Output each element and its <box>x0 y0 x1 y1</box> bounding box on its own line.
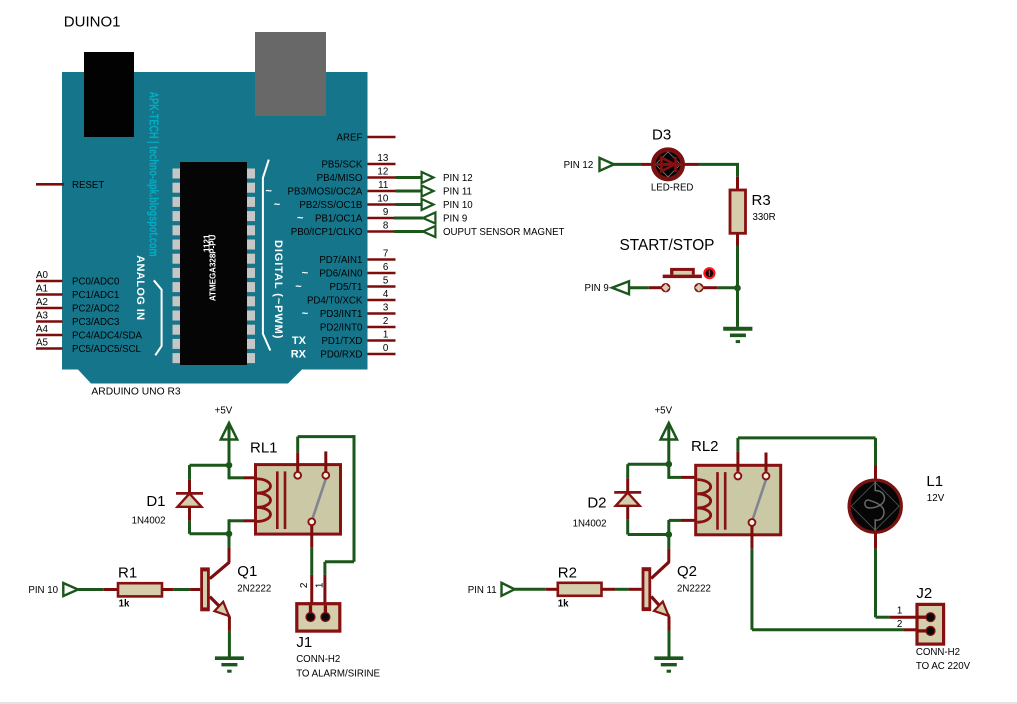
svg-text:~: ~ <box>265 186 272 198</box>
svg-text:PC3/ADC3: PC3/ADC3 <box>72 317 119 328</box>
svg-text:D3: D3 <box>652 127 671 144</box>
svg-text:0: 0 <box>383 343 389 354</box>
svg-text:PC0/ADC0: PC0/ADC0 <box>72 277 120 288</box>
svg-text:PD4/T0/XCK: PD4/T0/XCK <box>307 296 363 307</box>
svg-text:LED-RED: LED-RED <box>651 182 694 193</box>
svg-text:1N4002: 1N4002 <box>132 516 166 527</box>
svg-text:R2: R2 <box>558 565 577 582</box>
svg-text:PD7/AIN1: PD7/AIN1 <box>319 255 362 266</box>
svg-text:11: 11 <box>378 180 388 191</box>
svg-text:TX: TX <box>292 335 307 347</box>
svg-text:D1: D1 <box>146 493 165 510</box>
svg-text:1N4002: 1N4002 <box>573 519 607 530</box>
svg-text:PB5/SCK: PB5/SCK <box>321 160 362 171</box>
svg-text:J1: J1 <box>296 634 312 651</box>
svg-text:CONN-H2: CONN-H2 <box>296 654 340 665</box>
svg-text:2: 2 <box>383 316 388 327</box>
svg-text:A3: A3 <box>36 311 49 322</box>
svg-text:PD3/INT1: PD3/INT1 <box>320 309 363 320</box>
svg-text:2: 2 <box>897 619 902 630</box>
svg-text:A4: A4 <box>36 324 49 335</box>
svg-text:Q2: Q2 <box>677 563 697 580</box>
svg-text:+5V: +5V <box>654 406 672 417</box>
svg-text:12V: 12V <box>927 493 945 504</box>
svg-text:ANALOG IN: ANALOG IN <box>134 255 146 320</box>
svg-text:PD6/AIN0: PD6/AIN0 <box>319 269 363 280</box>
svg-text:TO ALARM/SIRINE: TO ALARM/SIRINE <box>296 668 380 679</box>
svg-text:L1: L1 <box>926 473 943 490</box>
svg-text:PIN 9: PIN 9 <box>443 214 467 225</box>
svg-text:PC4/ADC4/SDA: PC4/ADC4/SDA <box>72 331 143 342</box>
svg-text:6: 6 <box>383 262 389 273</box>
svg-text:~: ~ <box>297 213 304 225</box>
svg-text:PB3/MOSI/OC2A: PB3/MOSI/OC2A <box>288 187 363 198</box>
svg-text:ATMEGA328P-PU: ATMEGA328P-PU <box>208 234 217 301</box>
svg-text:DUINO1: DUINO1 <box>64 13 121 30</box>
svg-text:~: ~ <box>302 308 309 320</box>
svg-text:~: ~ <box>302 268 309 280</box>
svg-text:A5: A5 <box>36 338 49 349</box>
svg-text:R1: R1 <box>118 565 137 582</box>
svg-text:PB0/ICP1/CLKO: PB0/ICP1/CLKO <box>291 227 363 238</box>
svg-text:2N2222: 2N2222 <box>677 583 711 594</box>
svg-text:9: 9 <box>383 207 388 218</box>
svg-text:PIN 10: PIN 10 <box>443 200 473 211</box>
svg-text:OUPUT SENSOR MAGNET: OUPUT SENSOR MAGNET <box>443 227 565 238</box>
svg-text:4: 4 <box>383 289 389 300</box>
svg-text:1: 1 <box>315 582 326 588</box>
svg-text:PD5/T1: PD5/T1 <box>330 282 363 293</box>
svg-text:~: ~ <box>274 199 281 211</box>
svg-text:RL1: RL1 <box>250 440 278 457</box>
svg-text:D2: D2 <box>587 495 606 512</box>
svg-text:TO AC 220V: TO AC 220V <box>916 661 971 672</box>
svg-text:~: ~ <box>295 281 302 293</box>
svg-text:DIGITAL (~PWM): DIGITAL (~PWM) <box>272 240 284 339</box>
svg-text:PIN 12: PIN 12 <box>564 160 594 171</box>
svg-text:ARDUINO UNO R3: ARDUINO UNO R3 <box>91 387 181 398</box>
svg-text:1k: 1k <box>558 599 569 610</box>
svg-text:APK-TECH | techno-apk.blogspot: APK-TECH | techno-apk.blogspot.com <box>147 92 161 257</box>
svg-text:PIN 11: PIN 11 <box>443 187 472 198</box>
svg-text:RX: RX <box>291 349 307 361</box>
svg-text:3: 3 <box>383 303 389 314</box>
svg-text:PIN 10: PIN 10 <box>28 585 58 596</box>
svg-text:PD1/TXD: PD1/TXD <box>321 336 362 347</box>
svg-text:CONN-H2: CONN-H2 <box>916 647 960 658</box>
svg-text:PC5/ADC5/SCL: PC5/ADC5/SCL <box>72 344 142 355</box>
svg-text:2: 2 <box>299 582 310 588</box>
svg-text:PD0/RXD: PD0/RXD <box>320 350 362 361</box>
svg-text:PB2/SS/OC1B: PB2/SS/OC1B <box>299 200 362 211</box>
svg-text:330R: 330R <box>753 212 776 223</box>
svg-text:Q1: Q1 <box>237 563 257 580</box>
svg-text:PIN 9: PIN 9 <box>585 283 609 294</box>
svg-text:PIN 11: PIN 11 <box>468 585 497 596</box>
svg-text:PB4/MISO: PB4/MISO <box>317 173 363 184</box>
svg-text:A1: A1 <box>36 284 48 295</box>
svg-text:10: 10 <box>377 194 388 205</box>
svg-text:PC2/ADC2: PC2/ADC2 <box>72 304 119 315</box>
svg-text:13: 13 <box>377 153 388 164</box>
svg-text:START/STOP: START/STOP <box>620 237 715 254</box>
svg-text:2N2222: 2N2222 <box>237 583 271 594</box>
svg-text:PC1/ADC1: PC1/ADC1 <box>72 290 119 301</box>
svg-text:8: 8 <box>383 221 389 232</box>
svg-text:PD2/INT0: PD2/INT0 <box>320 323 363 334</box>
svg-text:7: 7 <box>383 249 388 260</box>
svg-text:PIN 12: PIN 12 <box>443 173 473 184</box>
svg-text:AREF: AREF <box>337 133 363 144</box>
svg-text:1: 1 <box>897 606 902 617</box>
svg-text:5: 5 <box>383 276 389 287</box>
svg-text:J2: J2 <box>916 585 932 602</box>
svg-text:RESET: RESET <box>72 180 104 191</box>
svg-text:R3: R3 <box>752 192 771 209</box>
svg-text:RL2: RL2 <box>691 438 719 455</box>
svg-text:PB1/OC1A: PB1/OC1A <box>315 214 363 225</box>
svg-text:1k: 1k <box>119 599 130 610</box>
svg-text:A2: A2 <box>36 297 48 308</box>
svg-text:A0: A0 <box>36 270 49 281</box>
svg-text:+5V: +5V <box>215 406 233 417</box>
svg-text:12: 12 <box>377 167 388 178</box>
svg-text:1: 1 <box>383 330 388 341</box>
